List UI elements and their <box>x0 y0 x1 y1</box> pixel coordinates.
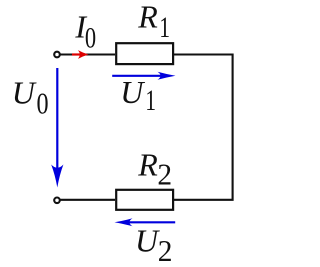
svg-text:0: 0 <box>37 87 49 122</box>
svg-text:1: 1 <box>159 10 170 43</box>
svg-text:2: 2 <box>158 233 173 267</box>
svg-text:R: R <box>137 0 158 35</box>
svg-text:U: U <box>120 74 145 110</box>
svg-text:U: U <box>135 223 160 259</box>
svg-text:2: 2 <box>157 157 172 192</box>
svg-text:1: 1 <box>145 84 156 117</box>
svg-text:0: 0 <box>85 20 96 54</box>
svg-text:U: U <box>12 74 37 110</box>
svg-text:R: R <box>137 146 158 182</box>
